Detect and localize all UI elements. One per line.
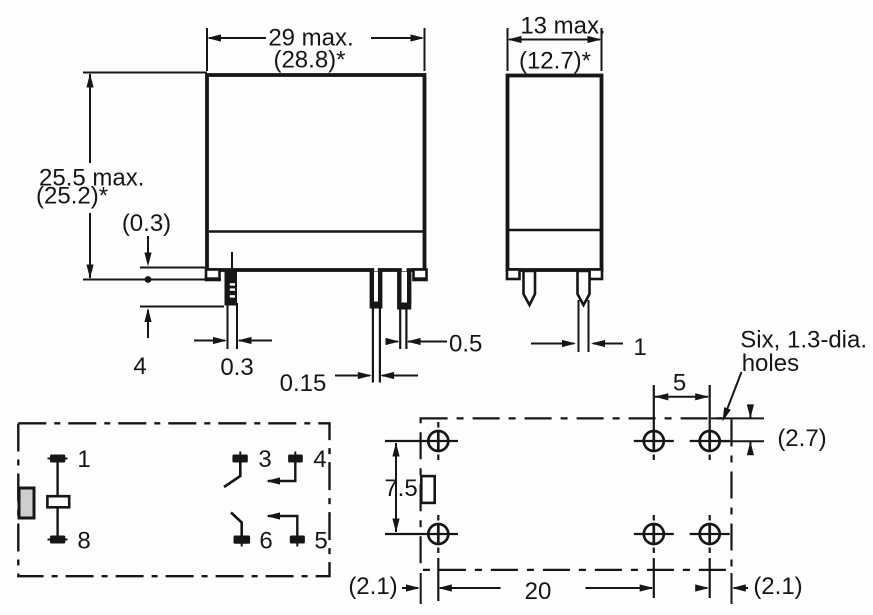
switch lever from 6 [231,513,242,536]
dimension 7.5 [395,443,397,532]
svg-text:6: 6 [259,528,272,555]
svg-text:7.5: 7.5 [384,475,417,502]
terminal 1 [48,455,68,463]
svg-text:20: 20 [525,578,552,605]
terminal 5 [290,536,305,547]
dimension (2.7) [711,406,764,453]
dash-dot PCB outline [421,418,732,570]
hole bottom-right [690,515,730,598]
svg-text:5: 5 [314,528,327,555]
dimension 0.3 (terminal thickness) [194,303,272,349]
pin slots through body bottom line [374,267,406,272]
svg-text:1: 1 [77,446,90,473]
hole bottom-left [385,515,458,601]
svg-text:(2.7): (2.7) [777,425,826,452]
svg-text:5: 5 [673,370,686,397]
hatched terminal pin (left, 0.3 thick) [225,252,238,306]
dimension (2.1) left [402,587,418,589]
side seam line [509,229,600,231]
side right foot [590,270,603,280]
svg-text:0.3: 0.3 [220,354,253,381]
leader line to hole [725,372,742,416]
terminal 3 [232,452,247,463]
wire from 5 with arrow [268,516,297,536]
dimension 29 max. (width) [207,28,425,71]
coil wire bottom [56,507,58,535]
case/base seam line [209,230,423,233]
terminal 4 [288,452,303,463]
dimension (2.1) right [696,587,748,589]
middle pin (0.15 thick) [370,271,383,383]
side left foot [507,270,520,280]
dimension 0.15 (pin thickness) [335,375,418,377]
svg-text:8: 8 [77,528,90,555]
svg-text:(2.1): (2.1) [753,573,802,600]
dimension 0.5 (pin thickness) [387,341,447,343]
dash-dot outline box [18,423,329,576]
svg-text:1: 1 [633,334,646,361]
dimension 1 (pin width) [531,343,623,345]
left foot standoff [206,270,220,281]
terminal 6 [234,536,251,547]
hole bottom-middle [634,515,674,598]
svg-text:(28.8)*: (28.8)* [273,47,345,74]
seating plane extension line [83,279,221,281]
svg-text:(0.3): (0.3) [122,210,171,237]
right pin (0.5 thick) [397,271,411,349]
dimension 13 max. [508,28,602,71]
junction dot on seating plane [145,276,152,283]
terminal 8 [48,536,68,544]
wire from 4 with arrow [268,463,295,482]
pin extension lines for dim 1 [579,300,589,352]
relay body side view [508,76,602,271]
white rect on left border [421,476,434,503]
svg-text:4: 4 [313,446,326,473]
hole top-middle [634,385,674,460]
svg-text:13 max.: 13 max. [520,13,605,40]
relay body front view [207,75,425,270]
svg-text:3: 3 [258,446,271,473]
svg-text:(2.1): (2.1) [348,573,397,600]
case bottom extension line [140,267,205,269]
coil symbol [47,496,69,507]
dimension 20 [440,587,652,589]
right foot standoff [414,270,427,281]
svg-text:0.5: 0.5 [449,331,482,358]
switch lever from 3 [224,463,240,488]
side right pin [578,271,590,305]
svg-text:holes: holes [742,350,799,377]
dimension 25.5 max. (height) [83,73,207,279]
coil wire top [56,463,58,497]
hole top-right [690,385,730,460]
dimension 4 (pin length) [147,310,149,338]
svg-text:(25.2)*: (25.2)* [36,183,108,210]
dimension 5 [655,396,708,398]
svg-text:(12.7)*: (12.7)* [519,48,591,75]
coil polarity mark (gray) [19,488,34,518]
svg-text:4: 4 [133,353,146,380]
extension lines below board corners [421,573,732,604]
svg-text:0.15: 0.15 [280,370,327,397]
pin bottom extension line [140,306,224,308]
side left pin [524,271,536,305]
hole top-left [385,422,458,460]
